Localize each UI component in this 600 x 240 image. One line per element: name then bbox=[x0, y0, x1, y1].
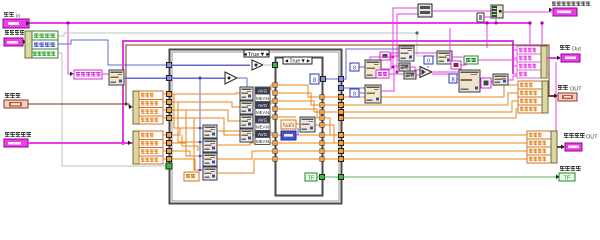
wire 0 to CT bbox=[427, 66, 429, 68]
wire blue2 after triangle bbox=[237, 77, 247, 79]
small box top bbox=[477, 13, 484, 22]
wire blue into C4 bbox=[200, 169, 203, 171]
tunnel blue1 bbox=[167, 63, 172, 68]
wire fan lower 1 bbox=[171, 128, 203, 135]
junction C2 bbox=[392, 66, 395, 69]
tunnel innerRb4 bbox=[320, 157, 325, 162]
node build string top bbox=[418, 4, 432, 17]
wire U2 row1 orange bbox=[163, 93, 168, 95]
tunnel outerR3 bbox=[339, 110, 344, 115]
node C3 small bbox=[404, 71, 416, 79]
node H bbox=[493, 74, 508, 85]
terminal 有效判斷 green bbox=[559, 173, 575, 182]
wire A out bbox=[381, 53, 399, 69]
tunnel innerR green bbox=[320, 175, 325, 180]
terminal 異常數值OUT bbox=[565, 143, 582, 151]
wire B1 row stub 2 bbox=[513, 57, 517, 59]
label 操作 Out bbox=[560, 45, 581, 53]
wire TF to tunnels bbox=[317, 176, 558, 178]
wire gap y143 bbox=[324, 142, 339, 144]
triangle comparator A bbox=[225, 72, 237, 84]
arrow B2 bbox=[554, 94, 557, 99]
junction blue C1 bbox=[199, 127, 202, 130]
tunnel U2-4 bbox=[167, 116, 172, 121]
wire H out bbox=[508, 76, 517, 80]
arrow 數值IN bbox=[129, 105, 132, 110]
wire c2 to NodeB bbox=[359, 92, 365, 94]
wire bus upper 2 bbox=[343, 93, 518, 105]
tunnel innerR N2 bbox=[320, 123, 325, 128]
case structure inner bbox=[276, 58, 323, 196]
svg-text:AVG: AVG bbox=[258, 132, 268, 137]
tunnel innerLb3 bbox=[273, 149, 278, 154]
wire U3 row3 orange bbox=[163, 150, 168, 152]
wire G to P3 bbox=[480, 82, 481, 84]
unbundle U3 異常數值 bbox=[133, 131, 163, 164]
unbundle 上次設定 U1 bbox=[25, 31, 58, 58]
wire vert x542 bbox=[541, 23, 543, 44]
tunnel outerRb3 bbox=[339, 149, 344, 154]
wire fan extra2 bbox=[178, 102, 203, 142]
tunnel innerR3 bbox=[320, 110, 325, 115]
node MEAN M4 bbox=[240, 129, 253, 142]
wire B1 row stub 1 bbox=[513, 49, 517, 51]
junction main1 bbox=[66, 21, 69, 24]
wire inner 2 bbox=[277, 93, 320, 105]
label 上次設定 bbox=[5, 30, 24, 35]
svg-text:◄True▼►: ◄True▼► bbox=[242, 52, 271, 58]
wire M4 out bbox=[270, 132, 272, 133]
wire U3 row1 orange bbox=[163, 134, 168, 136]
bundle 數值OUT B2 bbox=[518, 81, 548, 113]
svg-text:OUT: OUT bbox=[570, 87, 582, 93]
wire 異常數值IN magenta bbox=[28, 142, 133, 144]
wire M2 out bbox=[270, 101, 272, 104]
svg-text:0: 0 bbox=[427, 59, 430, 65]
svg-text:MEAN: MEAN bbox=[256, 96, 269, 101]
node N2 inner bbox=[300, 117, 315, 132]
arrow 上次設定 bbox=[23, 40, 26, 45]
wire inner-outer orange links bbox=[324, 96, 339, 98]
svg-text:AVG: AVG bbox=[258, 117, 268, 122]
wire gap y151 bbox=[324, 150, 339, 152]
wire blue1 inside bbox=[171, 64, 250, 66]
wire U3 row2 orange bbox=[163, 142, 168, 144]
wire P1 out bbox=[389, 73, 404, 75]
terminal 異常數值IN bbox=[4, 139, 28, 147]
wire U2 row2 orange bbox=[163, 101, 168, 103]
wire fan extra4 bbox=[194, 118, 203, 170]
wire blue vert x200 bbox=[199, 78, 201, 170]
wire C2 to CT bbox=[410, 67, 420, 70]
label 異常數值IN bbox=[5, 132, 31, 137]
arrow green bbox=[556, 175, 559, 180]
tunnel U3-3 bbox=[167, 149, 172, 154]
svg-text:◄True▼►: ◄True▼► bbox=[284, 59, 311, 65]
tunnel U3-2 bbox=[167, 141, 172, 146]
tunnel outerR2 bbox=[339, 103, 344, 108]
wire bus lower 2 bbox=[343, 142, 527, 144]
wire N1 violet out bbox=[124, 77, 168, 79]
tunnel innerLb1 bbox=[273, 133, 278, 138]
label 數值IN bbox=[5, 93, 20, 98]
junction 異常 branch bbox=[121, 141, 124, 144]
wire C out to E bbox=[414, 52, 437, 54]
wire 數值IN cluster maroon long bbox=[126, 45, 553, 104]
wire C4 out bbox=[217, 159, 272, 173]
wire bool 觸發模式 to case selector bbox=[58, 53, 166, 166]
wire build out to node I bbox=[432, 10, 491, 12]
tunnel innerL3 bbox=[273, 99, 278, 104]
wire U2 row3 orange bbox=[163, 109, 168, 111]
wire inner 7 bbox=[277, 150, 320, 152]
tunnel outerRb4 bbox=[339, 157, 344, 162]
node column C4 bbox=[203, 167, 217, 180]
subVI label 三棒系統數 bbox=[74, 70, 102, 79]
wire CT out bbox=[432, 71, 459, 73]
wire blue vert x247 bbox=[246, 78, 248, 90]
wire gap N2 y125 bbox=[324, 125, 334, 143]
constant blue c2 bbox=[350, 89, 359, 98]
wire gap y112 bbox=[324, 111, 339, 113]
subVI N1 icon bbox=[109, 70, 124, 85]
wire 操作in branch down right column bbox=[486, 24, 488, 48]
wire fan lower 2 bbox=[171, 142, 203, 143]
junction blue C4 bbox=[199, 169, 202, 172]
wire inner 4 bbox=[277, 109, 320, 118]
constant TF green bbox=[305, 173, 317, 182]
wire inner 1 bbox=[277, 85, 320, 97]
wire vert x450 bbox=[449, 28, 451, 61]
svg-text:Out: Out bbox=[572, 47, 581, 53]
tunnel U2-2 bbox=[167, 100, 172, 105]
wire M3 out bbox=[270, 117, 272, 118]
wire blue inner out bbox=[319, 78, 339, 80]
wire CT to G bbox=[432, 73, 459, 75]
wire B1 row stub 4 bbox=[513, 73, 517, 75]
tunnel innerRb2 bbox=[320, 141, 325, 146]
wire blue into C2 bbox=[200, 141, 203, 143]
wire fan upper 2 bbox=[171, 102, 240, 107]
wire const to N2 bbox=[296, 128, 298, 135]
unbundle U2 數值 bbox=[133, 91, 163, 124]
pink box P1 bbox=[376, 70, 389, 78]
tunnel outerRb1 bbox=[339, 133, 344, 138]
junction Aup bbox=[392, 56, 395, 59]
wire inner 3 bbox=[277, 101, 320, 112]
case outer header True bbox=[242, 50, 271, 58]
wire label to N1 bbox=[102, 73, 109, 75]
triangle comparator B bbox=[252, 60, 263, 70]
arrow into 三棒系統數 bbox=[70, 72, 73, 77]
node concat triangle CT bbox=[420, 67, 432, 78]
wire C2 out bbox=[217, 143, 272, 145]
node C format number bbox=[399, 46, 414, 61]
tunnel U2-1 bbox=[167, 92, 172, 97]
label 有效判斷 bbox=[560, 166, 581, 171]
wire 顯示位置 drop at x417 bbox=[417, 33, 437, 56]
node MEAN M3 bbox=[240, 115, 253, 128]
wire C3 out bbox=[217, 151, 272, 159]
junction main2 bbox=[485, 21, 488, 24]
wire fan extra3 bbox=[186, 110, 203, 156]
tunnel innerR4 bbox=[320, 116, 325, 121]
node column C3 bbox=[203, 153, 217, 166]
tunnel blue2 bbox=[167, 76, 172, 81]
wire NaN to N2 bbox=[296, 123, 300, 125]
wire 上次設定 to unbundle bbox=[23, 41, 26, 43]
wire blue into C1 bbox=[200, 127, 203, 129]
svg-text:MEAN: MEAN bbox=[256, 139, 269, 144]
wire blue2 inside bbox=[171, 77, 225, 79]
arrow 異常數值IN bbox=[128, 141, 131, 146]
wire A up bbox=[370, 57, 393, 60]
svg-text:MEAN: MEAN bbox=[256, 110, 269, 115]
constant blue 1.00 bbox=[281, 131, 296, 140]
junction 顯示位置 bbox=[415, 31, 418, 34]
wire B3 out bbox=[557, 146, 564, 148]
constant blue c1 bbox=[350, 63, 359, 72]
case inner header True bbox=[283, 57, 312, 65]
terminal 數值IN bbox=[4, 100, 28, 108]
pink box P3 bbox=[481, 78, 491, 88]
wire B1 out bbox=[547, 57, 560, 59]
wire bus upper 1 bbox=[343, 85, 518, 97]
wire gap y105 bbox=[324, 104, 339, 106]
wire fan upper 4 bbox=[171, 118, 240, 135]
terminal 上次設定 bbox=[4, 38, 23, 46]
selector tunnel inner bbox=[273, 63, 278, 68]
wire U2 row4 orange bbox=[163, 117, 168, 119]
wire N2 out bbox=[315, 124, 320, 126]
wire I down to main bbox=[495, 18, 497, 23]
wire CT up to build bbox=[397, 14, 418, 72]
wire bool to inner selector bbox=[263, 64, 272, 66]
arrow B1 bbox=[557, 56, 560, 61]
junction 數值 branch bbox=[125, 103, 128, 106]
tunnel U3-4 bbox=[167, 157, 172, 162]
wire blue into C3 bbox=[200, 155, 203, 157]
node E select bbox=[437, 51, 452, 64]
svg-text:MEAN: MEAN bbox=[256, 125, 269, 130]
tunnel outerR green bbox=[339, 175, 344, 180]
wire P3 to H bbox=[491, 80, 493, 83]
wire bus green bbox=[343, 176, 556, 178]
wire C3 to CT bbox=[416, 74, 420, 76]
pink node P2b bbox=[451, 61, 461, 69]
label 觸發鎖定模式字串 bbox=[552, 2, 590, 7]
wire vert x556 bbox=[555, 62, 557, 145]
green box G1 bbox=[464, 56, 478, 64]
wire fan extra1 bbox=[174, 94, 203, 128]
case structure outer bbox=[170, 50, 342, 204]
wire inner lower4 bbox=[277, 158, 320, 160]
wire inner 6 bbox=[277, 142, 320, 144]
wire gap y135 bbox=[324, 134, 339, 136]
junction blue C2 bbox=[199, 141, 202, 144]
wire 操作in branch down to subVI bbox=[68, 24, 70, 74]
wire B2 out bbox=[548, 95, 557, 97]
label 數值OUT bbox=[558, 85, 582, 93]
wire vert x530 bbox=[529, 23, 531, 45]
junction blue C3 bbox=[199, 155, 202, 158]
junction x530 bbox=[528, 21, 531, 24]
wire fan lower 3 bbox=[171, 151, 203, 156]
tunnel innerR2 bbox=[320, 103, 325, 108]
tunnel outerR1 bbox=[339, 95, 344, 100]
wire fan upper 1 bbox=[171, 93, 240, 94]
tunnel innerLb4 bbox=[273, 157, 278, 162]
tunnel outerR4 bbox=[339, 116, 344, 121]
junction I main bbox=[495, 22, 498, 25]
wire I out bbox=[503, 11, 552, 13]
tunnel U2-3 bbox=[167, 108, 172, 113]
node B number-to-string bbox=[365, 85, 381, 103]
constant blue 0 bbox=[424, 56, 433, 65]
node stack AVG/MEAN bbox=[255, 87, 270, 145]
wire fan extra5 bbox=[182, 135, 198, 151]
tunnel innerR1 bbox=[320, 95, 325, 100]
node C2 small bbox=[399, 63, 410, 71]
wire inner 5 bbox=[277, 134, 320, 136]
wire bus lower 3 bbox=[343, 150, 527, 152]
svg-text:TF: TF bbox=[564, 176, 571, 182]
terminal 數值OUT bbox=[558, 93, 577, 101]
constant NaN bbox=[281, 120, 296, 129]
node column C2 bbox=[203, 139, 217, 152]
bundle 異常數值OUT B3 bbox=[527, 131, 557, 163]
selector tunnel outer bbox=[166, 163, 172, 169]
node I icon bbox=[491, 5, 503, 18]
wire inner 117 bbox=[277, 116, 296, 118]
node MEAN M2 bbox=[240, 101, 253, 114]
terminal 觸發鎖定模式字串 bbox=[553, 8, 577, 16]
small orange box bottom bbox=[184, 172, 199, 181]
wire gap y159 bbox=[324, 158, 339, 160]
junction CT bbox=[396, 71, 399, 74]
wire P2b out bbox=[460, 62, 466, 65]
terminal 操作 in bbox=[3, 19, 29, 28]
tunnel innerL4 bbox=[273, 107, 278, 112]
wire G1 out bbox=[478, 59, 517, 61]
svg-text:8: 8 bbox=[353, 92, 356, 98]
svg-text:AVG: AVG bbox=[258, 89, 268, 94]
arrow B3 bbox=[561, 145, 564, 150]
wire fan lower 4 bbox=[171, 159, 203, 170]
wire c1 to NodeA blue bbox=[359, 66, 365, 68]
wire P4 to NodeC bbox=[390, 55, 399, 57]
wire 數值IN maroon bbox=[28, 104, 133, 107]
wire fan upper 3 bbox=[171, 110, 240, 121]
tunnel innerRb1 bbox=[320, 133, 325, 138]
pink node P4 bbox=[380, 52, 390, 60]
tunnel innerL2 bbox=[273, 91, 278, 96]
svg-text:NaN: NaN bbox=[282, 123, 294, 129]
node G big bbox=[459, 70, 480, 92]
tunnel innerRb3 bbox=[320, 149, 325, 154]
wire bus upper 4 bbox=[343, 109, 518, 118]
wire E out bbox=[452, 57, 462, 58]
wire blue to NodeB bbox=[343, 87, 365, 89]
tunnel innerL1 bbox=[273, 83, 278, 88]
svg-text:8: 8 bbox=[353, 66, 356, 72]
wire bus lower 4 bbox=[343, 158, 527, 160]
node column C1 bbox=[203, 125, 217, 138]
wire bus lower 1 bbox=[343, 134, 527, 136]
wire B1 row stub 3 bbox=[513, 65, 517, 67]
svg-text:AVG: AVG bbox=[258, 103, 268, 108]
tunnel U3-1 bbox=[167, 133, 172, 138]
junction blue2 bbox=[199, 77, 202, 80]
wire 顯示位置 pale green long bbox=[58, 33, 417, 36]
wire 8b to G bbox=[457, 78, 459, 80]
constant blue 8b bbox=[449, 74, 457, 84]
wire 異常數值 branch magenta long bbox=[123, 41, 513, 143]
tunnel innerLb2 bbox=[273, 141, 278, 146]
tunnel outerRb2 bbox=[339, 141, 344, 146]
arrow 操作 in bbox=[26, 21, 29, 26]
bundle 操作Out B1 bbox=[517, 46, 547, 78]
node A number-to-string bbox=[365, 60, 381, 78]
terminal 操作 Out bbox=[561, 54, 580, 62]
wire M1 out bbox=[270, 85, 272, 90]
svg-text:TF: TF bbox=[308, 176, 315, 182]
tunnel innerL5 bbox=[273, 115, 278, 120]
label 操作 in bbox=[4, 12, 20, 20]
wire 操作in string main bbox=[29, 22, 530, 24]
wire B out bbox=[381, 66, 399, 91]
label 異常數值OUT bbox=[564, 133, 598, 141]
tunnel innerR blue bbox=[321, 77, 326, 82]
wire 觸發點數 blue bbox=[58, 40, 168, 65]
wire bus upper 3 bbox=[343, 101, 518, 112]
arrow into top terminal bbox=[549, 8, 552, 13]
wire U3 row4 orange bbox=[163, 158, 168, 160]
node MEAN M1 bbox=[240, 87, 253, 100]
wire smallbox to I bbox=[484, 16, 491, 18]
svg-text:OUT: OUT bbox=[586, 135, 598, 141]
wire C1 out bbox=[217, 131, 272, 135]
wire blue tunnel79 up to NodeC bbox=[343, 49, 399, 79]
constant blue inner bbox=[310, 74, 319, 84]
junction x542 bbox=[540, 21, 543, 24]
tunnel outerR blue2 bbox=[339, 86, 344, 91]
tunnel outerR blue1 bbox=[339, 77, 344, 82]
wire C up to build bbox=[393, 8, 418, 67]
wire gap stair1 bbox=[324, 118, 339, 135]
